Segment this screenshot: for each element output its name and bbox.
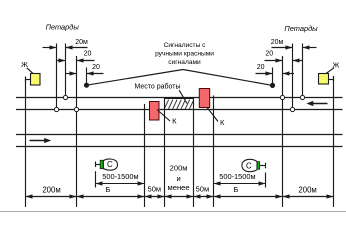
svg-text:Сигналисты с: Сигналисты с [164,42,207,49]
svg-text:Место работы: Место работы [134,83,180,91]
svg-text:200м: 200м [298,185,316,194]
svg-text:200м: 200м [42,185,60,194]
svg-text:50м: 50м [196,184,210,193]
svg-text:20: 20 [265,51,273,58]
svg-text:Петарды: Петарды [284,24,318,33]
svg-text:С: С [246,161,252,170]
svg-text:Петарды: Петарды [46,23,80,32]
svg-text:20: 20 [84,51,92,58]
svg-text:С: С [107,160,113,169]
svg-text:ручными красными: ручными красными [155,51,214,58]
svg-text:500-1500м: 500-1500м [219,172,255,181]
svg-text:и: и [176,174,180,183]
svg-text:20: 20 [92,64,100,71]
svg-text:20м: 20м [271,39,284,46]
svg-text:20: 20 [257,64,265,71]
svg-text:20м: 20м [75,39,88,46]
svg-text:200м: 200м [170,164,188,173]
svg-text:сигналами: сигналами [168,59,201,66]
svg-text:Б: Б [234,185,239,194]
svg-text:К: К [220,118,225,127]
svg-text:К: К [172,117,177,126]
svg-text:Б: Б [106,185,111,194]
svg-text:50м: 50м [148,184,162,193]
svg-text:500-1500м: 500-1500м [102,172,138,181]
svg-text:менее: менее [168,183,190,192]
